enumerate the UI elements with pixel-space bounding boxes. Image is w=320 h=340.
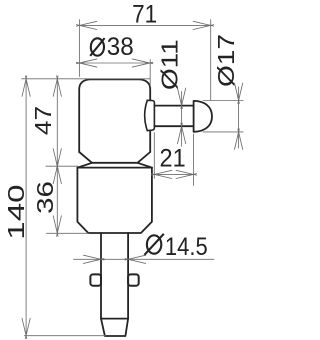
svg-text:140: 140: [4, 184, 30, 239]
dim 140 top arrow: [22, 76, 30, 97]
part outline group: [77, 79, 212, 336]
svg-text:38: 38: [107, 33, 134, 60]
stem: [101, 233, 128, 319]
dim Ø38 line: [79, 62, 149, 64]
extension cap top: [203, 100, 243, 102]
dim Ø14.5 left arrow: [84, 255, 105, 263]
dim Ø38 right extension: [149, 60, 151, 87]
dim 47 top arrow: [53, 76, 61, 97]
extension line 140 bottom: [24, 335, 105, 337]
svg-text:14.5: 14.5: [165, 233, 208, 261]
spigot flange plate: [147, 100, 154, 130]
dim 36 top arrow: [53, 163, 61, 184]
svg-text:36: 36: [32, 181, 58, 214]
chamfer left: [78, 163, 92, 168]
dim Ø38 right arrow: [132, 59, 153, 67]
extension cap bottom: [203, 131, 243, 133]
svg-text:21: 21: [160, 145, 186, 173]
dim 47 line: [56, 79, 58, 166]
dim Ø11 line: [181, 92, 183, 147]
dim 140 bottom arrow: [22, 318, 30, 339]
dim Ø11 top arrow: [178, 88, 186, 109]
svg-text:71: 71: [132, 0, 157, 28]
svg-text:Ø11: Ø11: [158, 39, 183, 90]
dim 71 right extension: [210, 20, 212, 101]
dim 47 bottom arrow: [53, 149, 61, 170]
dim 71 left arrow: [76, 21, 97, 29]
spigot end cap: [194, 101, 212, 132]
left nub: [90, 274, 101, 285]
dim Ø17 bottom arrow: [235, 129, 243, 150]
svg-text:47: 47: [31, 106, 56, 135]
dim 36 bottom arrow: [53, 216, 61, 237]
extension line 36 bottom: [47, 232, 89, 234]
dim Ø17 top arrow: [235, 83, 243, 104]
upper body dome and sides: [79, 79, 150, 152]
cone transition: [79, 152, 150, 163]
dim 21 left arrow: [151, 170, 172, 178]
dim 71 right arrow: [193, 21, 214, 29]
lower body: [77, 167, 151, 169]
top extension line at body apex: [22, 78, 150, 80]
dim 71 line: [79, 24, 210, 26]
dim Ø17 line: [238, 87, 240, 148]
svg-text:Ø17: Ø17: [214, 34, 239, 87]
label Ø38: [90, 38, 104, 56]
extension line 47/36 boundary: [46, 165, 78, 167]
stem crimp line: [101, 318, 128, 320]
label Ø14.5: [144, 234, 163, 255]
stem tip: [101, 319, 128, 336]
right nub: [128, 274, 139, 285]
dim Ø14.5 right arrow: [125, 255, 146, 263]
dim Ø11 bottom arrow: [178, 123, 186, 144]
dim 21 right extension: [193, 134, 195, 186]
dim Ø14.5 line: [74, 258, 215, 260]
dim 21 left extension: [153, 133, 155, 179]
spigot flange arc: [145, 100, 148, 130]
spigot shaft: [154, 106, 193, 127]
dim 71 left extension: [78, 20, 80, 77]
dim Ø38 left arrow: [76, 59, 97, 67]
dim 21 right arrow: [176, 170, 197, 178]
dim 140 line: [25, 79, 27, 336]
dim 36 line: [56, 166, 58, 233]
dimension linework group: [22, 20, 244, 339]
dimension texts: [90, 0, 208, 260]
dim 21 line: [154, 173, 193, 175]
chamfer right: [138, 163, 152, 168]
